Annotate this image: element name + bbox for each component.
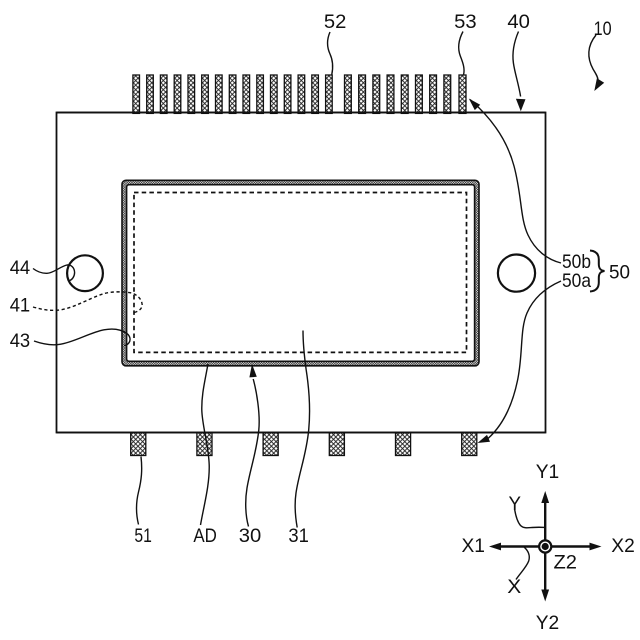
coordinate axes: X2 right arrow xyxy=(552,545,591,547)
leader line 10 xyxy=(589,35,598,80)
svg-text:43: 43 xyxy=(10,330,31,352)
mounting hole (right circle) xyxy=(498,255,535,292)
svg-text:53: 53 xyxy=(454,11,477,33)
svg-text:50: 50 xyxy=(609,262,630,284)
leader line 44 xyxy=(33,265,75,281)
brace for 50 xyxy=(590,251,605,292)
leader line AD xyxy=(201,364,210,525)
substrate inner frame xyxy=(127,185,475,362)
bottom lead 51 pin 1 xyxy=(131,433,146,456)
top lead pin 8 xyxy=(229,75,236,113)
coordinate axes: Z2 origin dot xyxy=(542,543,549,550)
arrowhead 30 xyxy=(249,364,256,377)
leader line X xyxy=(516,547,529,579)
svg-text:AD: AD xyxy=(193,525,217,547)
arrowhead 10 xyxy=(594,78,604,91)
bottom lead pin 5 xyxy=(396,433,411,456)
leader line 31 xyxy=(295,331,309,528)
top lead pin 23 xyxy=(444,75,451,113)
top lead 52 pin 1 xyxy=(133,75,140,113)
top lead pin 17 xyxy=(359,75,366,113)
top lead pin 5 xyxy=(188,75,195,113)
leader line 50a xyxy=(488,281,561,439)
svg-text:52: 52 xyxy=(324,11,347,33)
svg-text:51: 51 xyxy=(134,525,152,547)
top lead pin 10 xyxy=(257,75,264,113)
top lead pin 21 xyxy=(416,75,423,113)
coordinate axes: Z2 origin ring xyxy=(539,540,551,552)
arrowhead 40 xyxy=(516,99,526,112)
leader line 52 xyxy=(327,32,332,75)
mounting hole 44 (left circle) xyxy=(67,255,103,291)
arrowhead 50a xyxy=(478,435,491,443)
svg-text:10: 10 xyxy=(594,18,612,40)
svg-text:Y2: Y2 xyxy=(536,612,560,634)
top lead pin 16 xyxy=(345,75,352,113)
top lead pin 13 xyxy=(298,75,305,113)
svg-text:Y1: Y1 xyxy=(536,461,560,483)
dashed region 41 xyxy=(134,193,467,353)
package body 40 outline xyxy=(57,113,546,433)
svg-text:30: 30 xyxy=(239,525,262,547)
top lead pin 2 xyxy=(147,75,154,113)
leader line 40 xyxy=(513,32,521,97)
substrate 43 outer frame with fine hatch band xyxy=(122,180,479,365)
svg-text:41: 41 xyxy=(10,294,31,316)
leader line 53 xyxy=(459,32,464,75)
svg-text:50a: 50a xyxy=(562,270,591,292)
top lead 53 pin 24 xyxy=(459,75,466,113)
top lead pin 20 xyxy=(401,75,408,113)
package top edge redraw xyxy=(57,112,546,114)
svg-text:Y: Y xyxy=(509,493,522,515)
bottom lead pin 3 xyxy=(263,433,278,456)
top lead pin 12 xyxy=(284,75,291,113)
top lead pin 14 xyxy=(312,75,319,113)
svg-text:44: 44 xyxy=(10,257,31,279)
svg-text:40: 40 xyxy=(507,11,530,33)
bottom lead 50a pin 6 xyxy=(462,433,477,456)
leader line Y xyxy=(515,510,545,528)
package bottom edge redraw xyxy=(57,432,546,434)
bottom lead pin 4 xyxy=(329,433,344,456)
top lead pin 9 xyxy=(243,75,250,113)
svg-text:X: X xyxy=(507,576,521,598)
svg-text:31: 31 xyxy=(288,525,309,547)
top lead pin 15 xyxy=(326,75,333,113)
svg-text:X1: X1 xyxy=(462,535,486,557)
leader line 43 xyxy=(34,329,130,345)
arrowhead 50b xyxy=(469,99,480,111)
coordinate axes: Y2 down arrow xyxy=(544,553,546,592)
top lead pin 22 xyxy=(430,75,437,113)
top lead pin 19 xyxy=(387,75,394,113)
top lead pin 6 xyxy=(202,75,209,113)
top lead pin 11 xyxy=(271,75,278,113)
bottom lead pin 2 xyxy=(197,433,212,456)
top lead pin 4 xyxy=(174,75,181,113)
leader line 50b xyxy=(470,100,561,264)
leader line 51 xyxy=(136,457,141,525)
top lead pin 18 xyxy=(373,75,380,113)
coordinate axes: X1 left arrow xyxy=(500,545,539,547)
leader line 41 (dashed) xyxy=(33,292,142,313)
coordinate axes: Y1 up arrow xyxy=(544,501,546,540)
top lead pin 3 xyxy=(160,75,167,113)
top lead pin 7 xyxy=(216,75,223,113)
svg-text:Z2: Z2 xyxy=(554,551,578,573)
leader line 30 xyxy=(246,379,259,527)
svg-text:X2: X2 xyxy=(611,535,635,557)
